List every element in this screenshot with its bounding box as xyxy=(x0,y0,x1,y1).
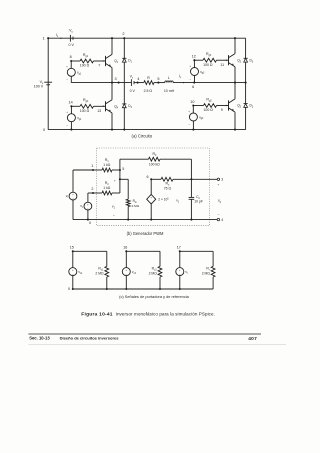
wire R1 to node 5 xyxy=(112,169,120,171)
node 14 xyxy=(69,101,73,108)
input v1 polarity marks xyxy=(112,179,116,218)
node junction Q2 emitter / bottom rail xyxy=(234,129,236,131)
source vg2 xyxy=(188,106,204,131)
svg-text:0 V: 0 V xyxy=(130,89,136,93)
svg-text:Sec. 10-13: Sec. 10-13 xyxy=(29,336,50,341)
node 12 xyxy=(192,54,196,61)
svg-text:2 MΩ: 2 MΩ xyxy=(95,272,104,276)
svg-text:100 Ω: 100 Ω xyxy=(203,108,213,112)
resistor RF 100 kohm xyxy=(149,152,161,166)
svg-text:R: R xyxy=(147,76,150,80)
svg-text:(b) Generador PWM: (b) Generador PWM xyxy=(127,231,164,236)
node junction Q3 collector / top rail xyxy=(234,37,236,39)
svg-text:Diseño de circuitos inversores: Diseño de circuitos inversores xyxy=(60,336,120,341)
svg-text:3: 3 xyxy=(115,77,117,81)
node 6 (circuit a) xyxy=(192,82,195,89)
wire right diode-leg vertical D3 D2 xyxy=(245,38,247,129)
node 3 xyxy=(115,77,120,84)
resistor Rg4 100 ohm xyxy=(80,98,94,113)
svg-text:+: + xyxy=(66,65,68,69)
svg-text:100 Ω: 100 Ω xyxy=(203,63,213,67)
svg-text:0: 0 xyxy=(43,128,45,132)
svg-text:1: 1 xyxy=(91,164,93,168)
wire input branch to Rin xyxy=(120,179,128,199)
source vg1 xyxy=(66,61,82,83)
source Vy 0V battery on top rail xyxy=(68,29,74,47)
source Vs 100V battery on left rail xyxy=(34,80,52,88)
node 0 (c) and bottom rail xyxy=(68,287,213,291)
wire mid rail right xyxy=(194,82,245,84)
wire node14 to Rg4 xyxy=(71,105,80,107)
node 2 (b) xyxy=(91,187,94,194)
carrier source vc3 with resistor Rc3, node 16 xyxy=(122,246,162,290)
svg-text:100 kΩ: 100 kΩ xyxy=(149,162,160,166)
svg-text:−: − xyxy=(72,196,74,200)
svg-text:2: 2 xyxy=(91,187,93,191)
resistor Rg3 100 ohm xyxy=(203,52,216,67)
svg-text:+: + xyxy=(114,179,116,183)
diode D4 xyxy=(122,83,132,130)
svg-text:2 MΩ: 2 MΩ xyxy=(202,272,211,276)
reference source vr with resistor Rr, node 17 xyxy=(176,246,215,290)
svg-text:1: 1 xyxy=(43,36,45,40)
svg-text:100 V: 100 V xyxy=(34,85,44,89)
svg-text:−: − xyxy=(217,213,219,217)
svg-text:407: 407 xyxy=(248,336,257,342)
svg-text:0 V: 0 V xyxy=(68,43,74,47)
node junction Q1 collector / top rail xyxy=(111,37,113,39)
output polarity vg xyxy=(217,183,221,218)
carrier source vc1 with resistor Rc1, node 15 xyxy=(69,246,109,290)
wire Ro to output terminal 3 xyxy=(173,178,217,180)
current Is arrow on top rail xyxy=(56,33,63,39)
svg-text:−: − xyxy=(87,206,89,210)
svg-text:17: 17 xyxy=(177,246,181,250)
node 2 xyxy=(122,32,125,39)
svg-text:2.5 Ω: 2.5 Ω xyxy=(144,89,153,93)
wire node8 to Rg1 xyxy=(71,60,80,62)
node junction D4 / bottom rail xyxy=(123,129,125,131)
wire R2 to riser xyxy=(112,170,120,193)
footer faint rule xyxy=(28,344,286,346)
footer page number 407 xyxy=(248,336,257,342)
svg-text:3: 3 xyxy=(221,178,223,182)
svg-text:−: − xyxy=(125,272,127,276)
transistor Q4 xyxy=(106,83,119,130)
node 8 xyxy=(70,55,73,62)
node 5 (b) xyxy=(119,167,125,171)
source vg3 xyxy=(189,60,205,82)
transistor Q3 xyxy=(229,38,242,82)
wire node1 to R1 xyxy=(93,169,102,171)
svg-text:1 kΩ: 1 kΩ xyxy=(103,186,111,190)
footer rule xyxy=(28,333,261,335)
svg-text:0: 0 xyxy=(89,221,91,225)
node junction riser / input branch xyxy=(119,178,121,180)
svg-text:2 MΩ: 2 MΩ xyxy=(149,272,158,276)
wire mid rail left (node 3) xyxy=(71,82,131,84)
wire left supply vertical xyxy=(47,38,49,129)
node 4 xyxy=(134,77,144,84)
svg-text:4: 4 xyxy=(137,77,139,81)
svg-text:100 Ω: 100 Ω xyxy=(80,64,90,68)
wire feedback top right xyxy=(160,159,191,179)
svg-text:2 MΩ: 2 MΩ xyxy=(132,204,140,208)
node 5 (circuit a) xyxy=(154,77,165,84)
svg-text:−: − xyxy=(190,77,192,81)
svg-text:+: + xyxy=(188,109,190,113)
svg-text:Figura 10-41: Figura 10-41 xyxy=(81,311,113,317)
caption (b) Generador PWM xyxy=(127,231,164,236)
wire node10 to Rg2 xyxy=(193,105,203,107)
svg-text:12: 12 xyxy=(192,54,196,58)
svg-text:0: 0 xyxy=(68,287,70,291)
svg-text:+: + xyxy=(189,64,191,68)
svg-text:(a) Circuito: (a) Circuito xyxy=(132,134,153,139)
resistor Ro 75 ohm xyxy=(161,177,173,190)
node 10 xyxy=(190,100,194,107)
wire Rg3 to Q3 base, node 11 xyxy=(217,59,229,66)
op-amp macromodel dashed box xyxy=(97,148,210,226)
terminal node 4 xyxy=(217,218,223,222)
svg-text:+: + xyxy=(218,183,220,187)
svg-text:75 Ω: 75 Ω xyxy=(164,187,172,191)
svg-text:6: 6 xyxy=(192,85,194,89)
svg-text:(c) Señales de portadora y de: (c) Señales de portadora y de referencia xyxy=(119,294,189,299)
terminal node 3 xyxy=(217,178,223,182)
source vr (b) xyxy=(66,170,77,220)
figure caption Figura 10-41 xyxy=(81,311,215,317)
svg-text:+: + xyxy=(66,110,68,114)
node 0 (b) xyxy=(89,221,91,225)
svg-text:16: 16 xyxy=(123,246,127,250)
resistor R 2.5 ohm xyxy=(144,76,154,93)
svg-text:14: 14 xyxy=(69,101,73,105)
wire top rail node1 to node2 corner xyxy=(48,37,245,39)
node junction Q3 emitter / mid rail xyxy=(234,82,236,84)
wire feedback top left xyxy=(120,158,149,160)
svg-text:−: − xyxy=(66,78,68,82)
caption (a) Circuito xyxy=(132,134,153,139)
svg-text:10 pF: 10 pF xyxy=(194,200,203,204)
svg-text:7: 7 xyxy=(98,64,100,68)
node 1 xyxy=(43,36,50,40)
transistor Q1 xyxy=(106,38,119,82)
wire Rg1 to Q1 base, node 7 xyxy=(94,60,106,67)
inductor L 10 mH xyxy=(164,76,175,93)
resistor Rg1 100 ohm xyxy=(80,53,94,68)
svg-text:L: L xyxy=(168,76,170,80)
svg-text:−: − xyxy=(72,272,74,276)
source vg4 xyxy=(66,106,82,130)
svg-text:8: 8 xyxy=(70,55,72,59)
svg-text:Inversor monofásico para la si: Inversor monofásico para la simulación P… xyxy=(116,311,215,316)
diode D2 xyxy=(244,104,254,109)
svg-text:11: 11 xyxy=(220,63,224,67)
wire vc to node 2 xyxy=(88,192,93,194)
transistor Q2 xyxy=(229,83,242,130)
resistor Rg2 100 ohm xyxy=(203,97,216,112)
svg-text:100 Ω: 100 Ω xyxy=(80,109,90,113)
svg-text:15: 15 xyxy=(70,246,74,250)
wire node12 to Rg3 xyxy=(194,59,203,61)
source Vx 0V battery on mid rail xyxy=(130,74,136,92)
svg-text:13: 13 xyxy=(97,109,101,113)
source vc (b) xyxy=(80,193,92,221)
svg-text:−: − xyxy=(66,123,68,127)
svg-text:5: 5 xyxy=(122,167,124,171)
wire L to node 6 with io arrow xyxy=(173,74,194,83)
node 1 (b) xyxy=(91,164,94,171)
svg-text:1 kΩ: 1 kΩ xyxy=(103,163,111,167)
resistor Rin 2 Mohm xyxy=(126,199,139,221)
svg-text:−: − xyxy=(188,122,190,126)
capacitor Co 10 pF xyxy=(189,179,203,220)
footer text left xyxy=(29,336,50,341)
svg-text:10: 10 xyxy=(190,100,194,104)
svg-text:9: 9 xyxy=(221,108,223,112)
caption (c) senales xyxy=(119,294,189,299)
node junction Q4 emitter / bottom rail xyxy=(111,129,113,131)
svg-text:5: 5 xyxy=(157,77,159,81)
node junction Q1 emitter / mid rail xyxy=(111,82,113,84)
resistor R2 1 kohm xyxy=(102,181,112,195)
node junction D3 / mid rail xyxy=(245,82,247,84)
node 0 (bottom left) xyxy=(43,128,45,132)
footer text middle xyxy=(60,336,120,341)
dependent source 2e5 v1 xyxy=(147,179,180,220)
wire node6 to Ro xyxy=(151,178,161,180)
svg-text:10 mH: 10 mH xyxy=(164,89,175,93)
wire node2 to R2 xyxy=(93,192,102,194)
wire node5 to feedback xyxy=(119,159,121,170)
svg-text:2: 2 xyxy=(122,32,124,36)
diode D1 xyxy=(122,38,132,82)
svg-text:−: − xyxy=(113,214,115,218)
wire bottom rail xyxy=(48,129,245,131)
svg-text:4: 4 xyxy=(221,218,223,222)
node 6 (b) xyxy=(147,175,153,180)
resistor R1 1 kohm xyxy=(102,158,112,172)
svg-text:6: 6 xyxy=(147,175,149,179)
wire vr to node 1 xyxy=(73,169,93,171)
svg-text:−: − xyxy=(179,272,181,276)
diode D3 xyxy=(244,58,254,63)
wire bottom rail (b) xyxy=(73,219,217,221)
wire Rg4 to Q4 base, node 13 xyxy=(94,106,106,113)
wire Rg2 to Q2 base, node 9 xyxy=(217,105,229,112)
